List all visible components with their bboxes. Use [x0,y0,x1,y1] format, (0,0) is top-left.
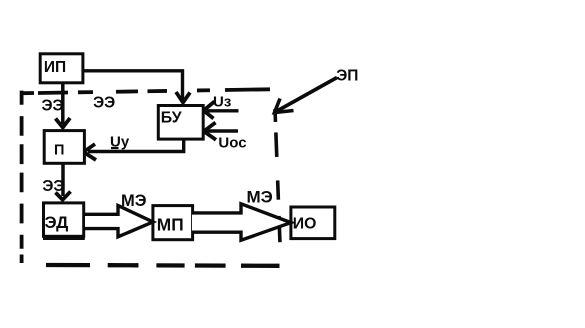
svg-text:П: П [54,143,64,159]
block БУ [158,106,203,140]
svg-text:ЭЭ: ЭЭ [42,178,64,195]
dashed enclosure top border [23,89,270,93]
dashed enclosure left border [20,91,24,263]
label ЭЭ right of ИП [93,94,115,111]
block arrow МЭ from ЭД to МП [85,206,153,237]
wire ИП right to БУ top [84,71,183,99]
svg-text:ЭЭ: ЭЭ [93,94,115,111]
block ЭД [43,203,85,238]
stray underline mark below Uу [111,147,119,149]
arrowhead into П top [56,118,71,128]
arrowhead Uу into П right [84,144,97,160]
svg-text:ИП: ИП [44,59,66,76]
wire ЭП pointer diagonal [277,78,337,112]
svg-text:МЭ: МЭ [247,187,273,206]
svg-text:ЭЭ: ЭЭ [42,97,64,114]
label ЭП [336,68,358,85]
wire Uос input to БУ right [207,129,238,132]
svg-text:МЭ: МЭ [121,192,147,210]
label МЭ right [247,187,273,206]
label МЭ left [121,192,147,210]
svg-text:Uз: Uз [213,94,231,111]
dashed enclosure bottom border [46,263,280,268]
wire П bottom to ЭД top [61,164,65,196]
arrowhead ЭП pointer [275,99,294,113]
wire Uу feedback БУ bottom to П right [88,139,184,152]
svg-text:ЭП: ЭП [336,68,358,85]
block ИП [40,54,83,83]
label Uз [213,94,231,111]
label ЭЭ between П and ЭД [42,178,64,195]
arrowhead Uз into БУ [204,102,215,119]
wire ИП bottom to П top [61,84,65,124]
block МП [153,206,193,240]
label Uос [218,134,246,151]
block arrow МЭ from МП to ИО [192,204,291,240]
svg-text:ИО: ИО [293,215,317,232]
svg-text:Uос: Uос [218,134,246,151]
svg-text:МП: МП [157,215,184,235]
arrowhead Uос into БУ [204,123,216,140]
svg-text:БУ: БУ [161,110,182,127]
block П [44,131,84,164]
block ИО [291,207,335,239]
label ЭЭ under ИП [42,97,64,114]
dashed enclosure right border [275,109,280,244]
svg-text:ЭД: ЭД [45,213,69,232]
arrowhead into БУ top [176,92,190,103]
label Uу [110,133,130,150]
wire Uз input to БУ right [207,109,239,112]
arrowhead into ЭД top [56,192,71,200]
